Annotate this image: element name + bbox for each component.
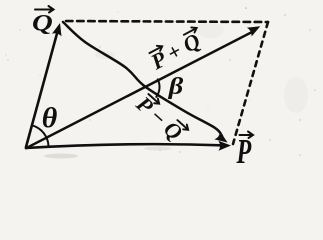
svg-text:β: β: [168, 73, 184, 100]
svg-text:θ: θ: [42, 103, 58, 134]
label P-Q along the difference diagonal: [131, 90, 190, 147]
wire diagonal P+Q line: [26, 31, 255, 149]
label Q with over-arrow (top-left): [32, 6, 54, 36]
arrowhead of vector P+Q: [247, 26, 260, 36]
wire dashed right side of parallelogram: [233, 22, 268, 144]
wire diagonal P-Q line: [63, 22, 222, 136]
wire dashed top side of parallelogram: [66, 21, 268, 22]
arrowhead of vector P: [218, 141, 231, 151]
angle beta arc at diagonal crossing: [156, 79, 159, 96]
paper background: [0, 0, 323, 164]
angle theta arc at origin: [32, 125, 49, 146]
arrowhead of vector Q: [52, 23, 62, 36]
label P with over-arrow (bottom-right): [236, 132, 253, 172]
svg-text:Q: Q: [32, 10, 53, 36]
wire vector P line (bottom side): [26, 144, 226, 148]
paper scan noise (decorative): [5, 7, 315, 158]
arrowhead of vector P-Q: [214, 131, 227, 142]
label P+Q along the sum diagonal: [145, 25, 207, 74]
wire vector Q line: [26, 28, 59, 147]
